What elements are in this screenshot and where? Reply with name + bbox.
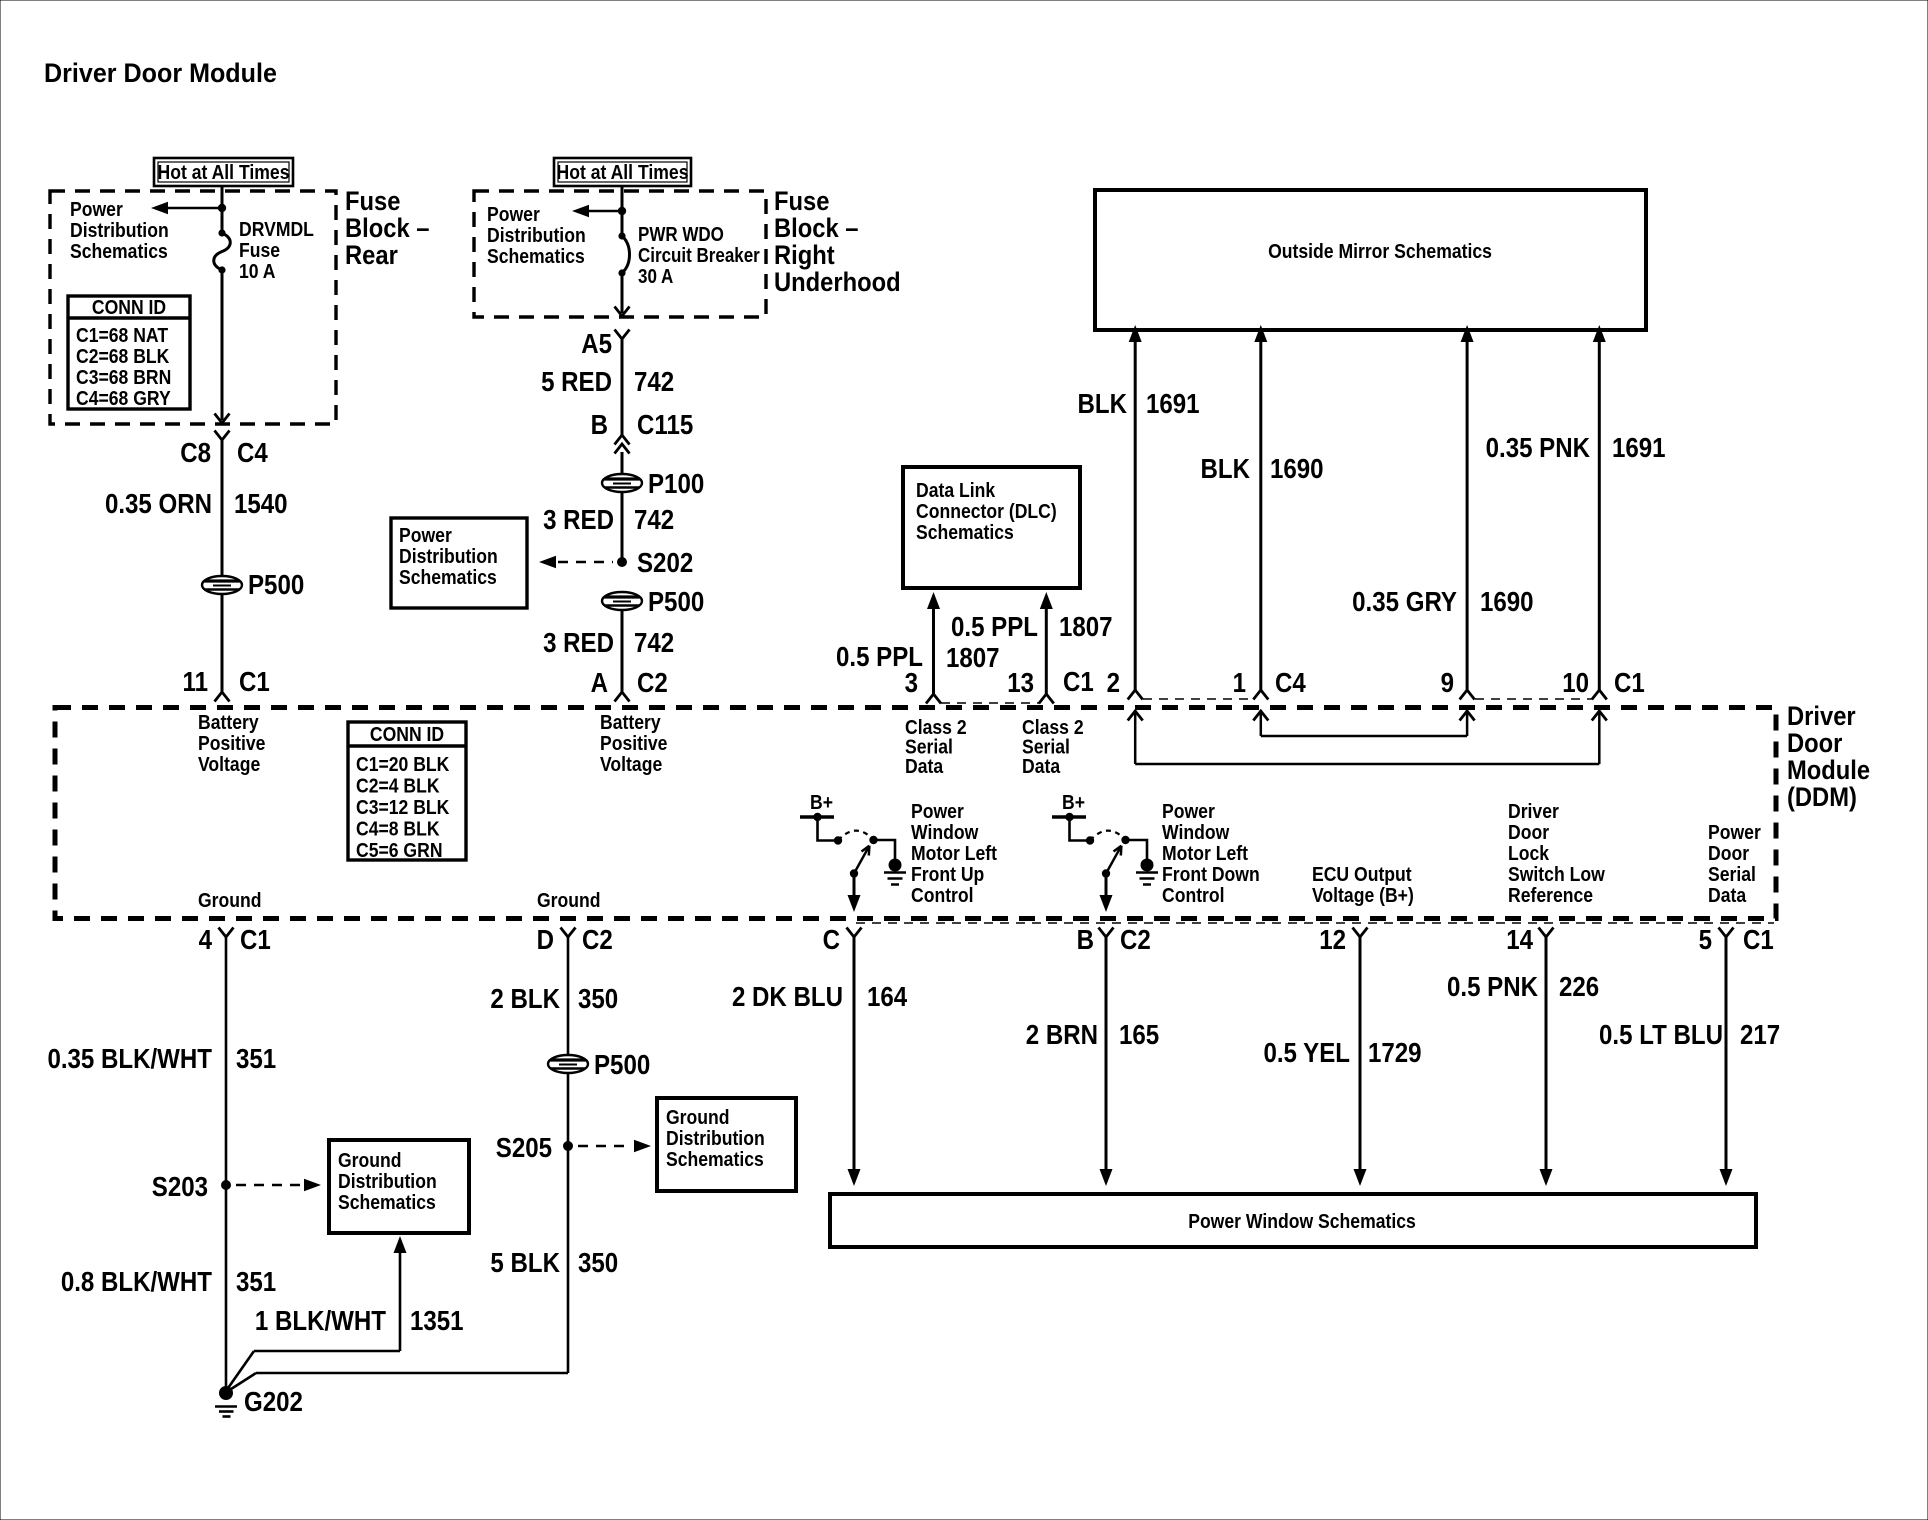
connector symbol at pin B [1099,928,1114,938]
note box Outside Mirror Schematics [1095,190,1646,330]
splice S202 [617,557,627,567]
note box Ground Distribution Schematics (left) [329,1140,469,1233]
dashed connector tie line pins 2-1 [1143,698,1253,700]
internal arrow up at pin 2 [1128,710,1143,764]
svg-text:1807: 1807 [1059,610,1113,642]
svg-text:0.5 YEL: 0.5 YEL [1263,1036,1350,1068]
internal arrow up at pin 10 [1592,710,1607,764]
arrow to Power Distribution Schematics [587,210,622,212]
junction node at breaker feed [618,207,626,215]
svg-text:Driver Door Module: Driver Door Module [44,57,277,88]
svg-text:DriverDoorLockSwitch LowRefere: DriverDoorLockSwitch LowReference [1508,800,1605,906]
wire from Hot at All Times into fuse block [221,186,224,233]
svg-text:Hot at All Times: Hot at All Times [158,161,290,183]
svg-text:1 BLK/WHT: 1 BLK/WHT [255,1304,386,1336]
junction node at fuse feed [218,204,226,212]
svg-text:C1=20 BLKC2=4 BLKC3=12 BLKC4=8: C1=20 BLKC2=4 BLKC3=12 BLKC4=8 BLKC5=6 G… [356,753,450,861]
wire 3 RED 742 lower [621,610,624,692]
svg-text:0.5 LT BLU: 0.5 LT BLU [1599,1018,1723,1050]
arrow to Power Distribution Schematics [166,207,222,209]
svg-text:C8: C8 [180,436,211,468]
svg-text:C2: C2 [637,666,668,698]
connector symbol at DDM pin 2 [1128,690,1143,700]
connector symbol at pin 12 [1353,928,1368,938]
svg-text:4: 4 [199,923,213,955]
CONN ID table (fuse block) [68,296,190,409]
svg-text:1540: 1540 [234,487,288,519]
svg-text:164: 164 [867,980,908,1012]
svg-text:P500: P500 [248,568,304,600]
svg-text:Class 2SerialData: Class 2SerialData [905,716,967,777]
svg-text:PWR WDOCircuit Breaker30 A: PWR WDOCircuit Breaker30 A [638,223,760,288]
svg-text:351: 351 [236,1265,276,1297]
pass-through grommet P500 (bottom) [548,1055,588,1073]
svg-text:C2: C2 [582,923,613,955]
svg-text:1807: 1807 [946,641,1000,673]
wire 0.5 YEL 1729 [1359,937,1362,1172]
svg-text:1729: 1729 [1368,1036,1422,1068]
svg-text:14: 14 [1506,923,1533,955]
svg-text:2 DK BLU: 2 DK BLU [732,980,843,1012]
svg-text:A5: A5 [581,327,612,359]
svg-text:226: 226 [1559,970,1599,1002]
note box Ground Distribution Schematics (right) [657,1098,796,1191]
internal link wire pins 1-9 [1261,735,1467,738]
svg-text:BLK: BLK [1078,387,1128,419]
svg-text:B+: B+ [1062,791,1085,813]
svg-text:C1: C1 [1743,923,1774,955]
svg-text:Power Window Schematics: Power Window Schematics [1188,1210,1416,1232]
label box Hot at All Times (left) [154,158,293,186]
svg-text:BatteryPositiveVoltage: BatteryPositiveVoltage [198,711,265,775]
svg-text:GroundDistributionSchematics: GroundDistributionSchematics [666,1106,765,1170]
svg-text:351: 351 [236,1042,276,1074]
connector symbol at pin D [561,928,576,938]
svg-text:C4: C4 [1275,666,1306,698]
svg-text:Outside Mirror Schematics: Outside Mirror Schematics [1268,240,1492,262]
internal link wire pins 2-10 [1135,763,1599,766]
svg-text:0.8 BLK/WHT: 0.8 BLK/WHT [61,1265,212,1297]
connector C115 female half [615,435,630,445]
note box Power Distribution Schematics [391,518,527,608]
connector symbol at DDM pin 1 [1253,690,1268,700]
pass-through grommet P500 (top left) [202,576,242,594]
svg-text:5 RED: 5 RED [541,365,612,397]
wire 5 RED 742 [621,339,624,435]
svg-text:B: B [1077,923,1094,955]
svg-text:P500: P500 [648,585,704,617]
wire fuse to connector C8/C4 [221,270,224,420]
connector symbol at DDM pin 3 [926,694,941,704]
connector symbol at DDM pin 9 [1460,690,1475,700]
wire 2 BRN 165 [1105,937,1108,1172]
svg-text:Hot at All Times: Hot at All Times [557,161,689,183]
svg-text:S202: S202 [637,546,693,578]
connector A5 female half [615,330,630,340]
wire P500 to G202 [567,1073,570,1373]
wire 3 RED 742 upper [621,492,624,562]
internal arrow up at pin 1 [1253,710,1268,736]
svg-text:3: 3 [905,666,918,698]
svg-text:GroundDistributionSchematics: GroundDistributionSchematics [338,1149,437,1213]
svg-text:CONN ID: CONN ID [370,723,444,745]
open arrow at fuse block exit [615,307,630,317]
wire 2 BLK 350 [567,937,570,1055]
switch Power Window Motor Left Front Up Control [800,791,998,912]
svg-text:BLK: BLK [1201,452,1251,484]
note box Data Link Connector (DLC) Schematics [903,467,1080,588]
svg-text:C1: C1 [239,665,270,697]
svg-text:S205: S205 [496,1131,552,1163]
svg-text:B: B [591,408,608,440]
svg-text:3 RED: 3 RED [543,503,614,535]
wire class 2 serial data pin 3 to DLC [932,608,935,694]
svg-text:742: 742 [634,365,674,397]
thin dashed connector line under DDM bottom border [856,922,1774,924]
circuit breaker PWR WDO 30A symbol [618,232,629,276]
svg-text:PowerWindowMotor LeftFront UpC: PowerWindowMotor LeftFront UpControl [911,800,998,906]
svg-text:B+: B+ [810,791,833,813]
open arrow at fuse block exit [215,414,230,424]
wire 1 BLK/WHT 1351 from ground distribution [226,1236,407,1391]
internal arrow up at pin 9 [1460,710,1475,736]
svg-text:C2: C2 [1120,923,1151,955]
svg-text:P100: P100 [648,467,704,499]
svg-text:C1: C1 [240,923,271,955]
svg-text:3 RED: 3 RED [543,626,614,658]
fuse block Rear dashed enclosure [50,191,336,424]
svg-text:11: 11 [183,665,208,697]
svg-text:1691: 1691 [1146,387,1200,419]
svg-text:5: 5 [1699,923,1712,955]
svg-text:S203: S203 [152,1170,208,1202]
connector symbol at DDM pin 10 [1592,690,1607,700]
wire 0.35 BLK/WHT 351 [225,937,228,1391]
connector symbol at pin 14 [1539,928,1554,938]
svg-text:0.5 PNK: 0.5 PNK [1447,970,1538,1002]
svg-text:0.35 GRY: 0.35 GRY [1352,585,1457,617]
svg-text:2: 2 [1107,666,1120,698]
svg-text:P500: P500 [594,1048,650,1080]
svg-text:0.35 ORN: 0.35 ORN [105,487,212,519]
svg-text:0.5 PPL: 0.5 PPL [951,610,1038,642]
CONN ID table (DDM) [348,722,466,861]
svg-text:PowerDoorSerialData: PowerDoorSerialData [1708,821,1761,906]
svg-text:G202: G202 [244,1385,303,1417]
dashed leader to Power Distribution Schematics box [558,561,613,564]
svg-text:2 BRN: 2 BRN [1026,1018,1098,1050]
wire 5 BLK run to G202 [228,1373,568,1391]
dashed connector tie line pins 9-10 [1475,698,1592,700]
dashed connector tie line between pins 3 and 13 [941,702,1039,704]
wire C115 to P100 [621,452,624,474]
open arrow pointing up at C115 [615,444,630,454]
svg-text:2 BLK: 2 BLK [490,982,560,1014]
wire breaker to block exit [621,273,624,313]
svg-text:13: 13 [1007,666,1034,698]
dashed leader S203 to Ground Distribution box [236,1184,301,1187]
connector symbol at pin 4 [219,928,234,938]
svg-text:10: 10 [1562,666,1589,698]
svg-text:DRVMDLFuse10 A: DRVMDLFuse10 A [239,218,314,282]
connector C8/C4 female half [215,431,230,441]
svg-text:D: D [537,923,554,955]
label box Hot at All Times (right) [554,158,691,186]
connector symbol at pin 5 [1719,928,1734,938]
fuse DRVMDL 10A symbol [214,229,231,273]
ground G202 [215,1385,303,1417]
svg-text:217: 217 [1740,1018,1780,1050]
svg-text:C: C [823,923,841,955]
svg-text:1691: 1691 [1612,431,1666,463]
wire mirror circuit pin 9 [1466,340,1469,690]
wire mirror circuit pin 10 [1598,340,1601,690]
dashed leader S205 to Ground Distribution box [578,1145,631,1148]
svg-text:5 BLK: 5 BLK [490,1246,560,1278]
svg-text:350: 350 [578,982,618,1014]
switch Power Window Motor Left Front Down Control [1052,791,1260,912]
svg-text:12: 12 [1319,923,1346,955]
svg-text:ECU OutputVoltage (B+): ECU OutputVoltage (B+) [1312,863,1414,906]
wire mirror circuit pin 1 [1259,340,1262,690]
wire 0.5 PNK 226 [1545,937,1548,1172]
svg-text:1351: 1351 [410,1304,464,1336]
wire 0.5 LT BLU 217 [1725,937,1728,1172]
splice S203 [221,1180,231,1190]
svg-text:CONN ID: CONN ID [92,296,166,318]
svg-text:PowerDistributionSchematics: PowerDistributionSchematics [399,524,498,588]
wire 0.35 ORN 1540 [221,440,224,576]
svg-text:C1=68 NATC2=68 BLKC3=68 BRNC4=: C1=68 NATC2=68 BLKC3=68 BRNC4=68 GRY [76,324,171,409]
connector symbol at DDM pin A [615,692,630,702]
svg-text:DriverDoorModule(DDM): DriverDoorModule(DDM) [1787,702,1870,813]
svg-text:Ground: Ground [198,889,262,911]
wire class 2 serial data pin 13 to DLC [1045,608,1048,694]
svg-text:0.35 BLK/WHT: 0.35 BLK/WHT [47,1042,212,1074]
svg-text:742: 742 [634,503,674,535]
svg-text:0.35 PNK: 0.35 PNK [1486,431,1591,463]
svg-text:Class 2SerialData: Class 2SerialData [1022,716,1084,777]
note box Power Window Schematics [830,1194,1756,1247]
svg-text:C1: C1 [1063,665,1094,697]
connector symbol at DDM pin 13 [1039,694,1054,704]
svg-text:742: 742 [634,626,674,658]
module DDM dashed enclosure [55,708,1776,919]
wire mirror circuit pin 2 [1134,340,1137,690]
svg-text:Ground: Ground [537,889,601,911]
svg-text:BatteryPositiveVoltage: BatteryPositiveVoltage [600,711,667,775]
pass-through grommet P100 [602,474,642,492]
connector symbol at pin C [847,928,862,938]
svg-text:FuseBlock –Rear: FuseBlock –Rear [345,187,429,271]
svg-text:165: 165 [1119,1018,1159,1050]
svg-text:C115: C115 [637,408,693,440]
svg-text:C4: C4 [237,436,268,468]
svg-text:1690: 1690 [1480,585,1534,617]
svg-text:350: 350 [578,1246,618,1278]
wire 2 DK BLU 164 [853,937,856,1172]
svg-text:FuseBlock –RightUnderhood: FuseBlock –RightUnderhood [774,187,901,298]
svg-text:C1: C1 [1614,666,1645,698]
svg-text:1690: 1690 [1270,452,1324,484]
wire P500 to DDM pin 11 [221,594,224,692]
wire from Hot at All Times into breaker [621,186,624,236]
splice S205 [563,1141,573,1151]
fuse block Right Underhood dashed enclosure [474,191,766,317]
svg-text:PowerWindowMotor LeftFront Dow: PowerWindowMotor LeftFront DownControl [1162,800,1260,906]
svg-text:1: 1 [1233,666,1246,698]
pass-through grommet P500 (middle) [602,592,642,610]
connector symbol at DDM pin 11 [215,692,230,702]
svg-text:9: 9 [1441,666,1454,698]
svg-text:A: A [591,666,609,698]
svg-text:PowerDistributionSchematics: PowerDistributionSchematics [487,203,586,267]
svg-text:Data LinkConnector (DLC)Schema: Data LinkConnector (DLC)Schematics [916,479,1057,543]
